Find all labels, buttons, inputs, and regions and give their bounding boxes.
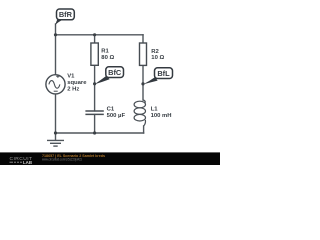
svg-text:C1: C1 [107,107,115,113]
svg-text:www.circuitlab.com/c/5s229jd42: www.circuitlab.com/c/5s229jd42z [42,157,82,161]
svg-text:R1: R1 [101,49,109,55]
junction dots [54,33,145,134]
capacitor C1 [85,111,103,114]
svg-text:100 mH: 100 mH [151,113,172,119]
svg-text:R2: R2 [151,49,159,55]
wire left branch vertical (flag node to V1 top) [55,24,57,75]
resistor R2 [140,43,147,65]
svg-text:BfL: BfL [157,69,170,78]
node: bottom bus/C1 junction [93,131,96,134]
label C1 [107,107,126,119]
resistor R1 [91,43,98,65]
ground [47,133,64,146]
logo CIRCUIT LAB [10,156,33,165]
wire R1 bottom to C1 [94,65,96,111]
wire R2 top stub [142,35,144,43]
svg-text:BfR: BfR [59,10,73,19]
wire R2 bottom to L1 [142,65,144,100]
flag BfL [143,68,173,85]
source V1 [46,75,65,94]
svg-text:square: square [67,80,87,86]
node: bus/V1 junction [54,33,57,36]
wire bottom bus [56,132,144,134]
label R1 [101,49,114,61]
svg-text:80 Ω: 80 Ω [101,55,114,61]
wire R1 top stub [94,35,96,43]
svg-text:BfC: BfC [108,68,122,77]
wire V1 bottom [55,94,57,133]
svg-text:500 µF: 500 µF [107,113,126,119]
label V1 [67,73,87,92]
svg-text:V1: V1 [67,73,75,79]
label L1 [151,107,172,120]
svg-text:2 Hz: 2 Hz [67,87,79,93]
footer bar [0,152,220,165]
wire top bus [56,34,144,36]
wire C1 bottom to bus [94,115,96,133]
svg-text:L1: L1 [151,107,159,113]
inductor L1 [134,100,145,126]
node: bottom bus/ground junction [54,131,57,134]
wire L1 exit to bus [143,126,145,133]
flag BfC [95,67,124,84]
node: BfC attach [93,82,96,85]
node: bus/R1 junction [93,33,96,36]
node: BfL attach [141,82,144,85]
label R2 [151,49,164,61]
svg-text:LAB: LAB [23,160,32,165]
flag BfR [55,9,74,25]
svg-text:10 Ω: 10 Ω [151,55,164,61]
